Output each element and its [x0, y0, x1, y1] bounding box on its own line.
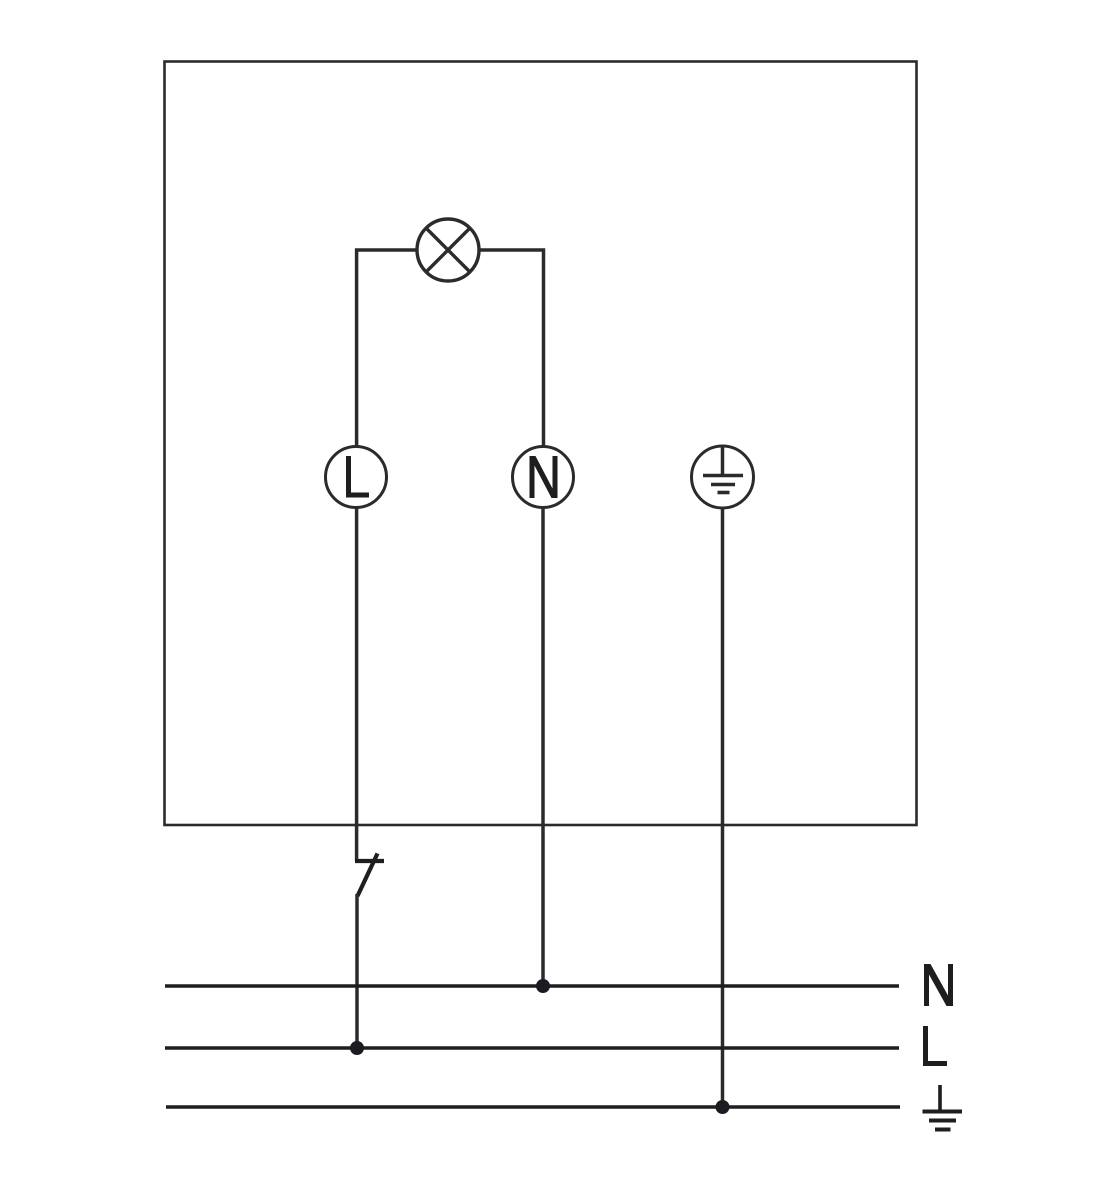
wire lamp-left to L terminal	[357, 250, 417, 446]
terminal N	[513, 447, 574, 508]
label L (mains live)	[926, 1026, 948, 1064]
wire PE terminal to PE bus	[721, 508, 725, 1107]
junction PE wire / PE bus	[716, 1100, 730, 1114]
wire lamp-right to N terminal	[479, 250, 543, 446]
bus line PE	[166, 1105, 900, 1108]
device enclosure box	[165, 62, 917, 826]
terminal PE (earth)	[692, 446, 754, 508]
label N (mains neutral)	[924, 964, 953, 1006]
wire switch to L bus	[355, 894, 359, 1048]
junction L wire / L bus	[350, 1041, 364, 1055]
bus line L	[165, 1046, 899, 1049]
wire L terminal to switch	[355, 508, 359, 862]
junction N wire / N bus	[536, 979, 550, 993]
terminal L	[326, 447, 387, 508]
ground symbol (mains earth)	[923, 1085, 963, 1130]
bus line N	[165, 984, 899, 987]
lamp E1	[417, 219, 479, 281]
switch S1	[355, 854, 384, 897]
wire N terminal to N bus	[541, 508, 545, 987]
